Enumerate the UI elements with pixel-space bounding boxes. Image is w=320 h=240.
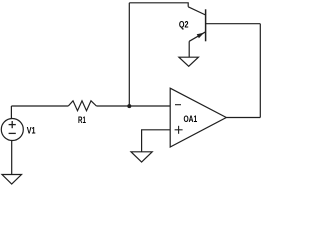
svg-text:OA1: OA1 <box>184 114 198 124</box>
wire top collector feed <box>129 3 188 7</box>
wire right vertical <box>259 24 261 118</box>
wire main horizontal left of R1 <box>11 105 68 107</box>
ground V1 <box>2 175 22 185</box>
op-amp OA1 <box>170 88 226 147</box>
ground Q2 emitter <box>179 57 199 66</box>
wire V1 top lead <box>10 106 12 119</box>
voltage source V1 <box>1 119 23 141</box>
resistor R1 <box>68 101 96 111</box>
node junction <box>127 104 131 108</box>
wire op-amp plus input <box>142 130 171 152</box>
svg-text:V1: V1 <box>27 125 36 135</box>
wire base feedback <box>206 23 261 25</box>
svg-text:R1: R1 <box>78 115 86 125</box>
ground op-amp <box>131 152 152 162</box>
wire V1 bottom lead <box>11 141 13 175</box>
svg-text:Q2: Q2 <box>179 19 189 29</box>
wire op-amp output <box>226 117 260 119</box>
wire emitter to ground <box>188 41 190 57</box>
wire main horizontal right of R1 to op-amp <box>96 105 170 107</box>
transistor Q2 <box>188 7 205 42</box>
wire left vertical <box>128 3 130 106</box>
